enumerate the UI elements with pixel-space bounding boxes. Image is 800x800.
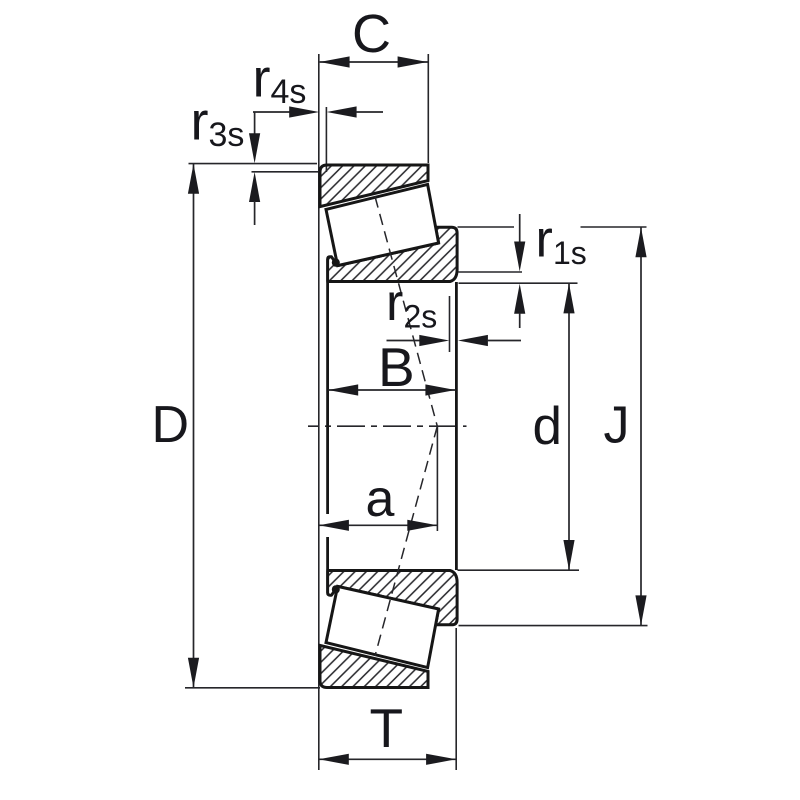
wire extension r4s chamfer [325,107,327,172]
node notch blob top [332,258,340,266]
dimension r2s [387,340,421,342]
dimension C [320,61,428,63]
svg-text:J: J [604,397,630,455]
dimension r4s [253,111,290,113]
svg-text:r: r [253,49,271,109]
wire extension T right [455,628,457,770]
svg-text:B: B [378,336,415,398]
svg-text:3s: 3s [209,116,245,154]
node roller axis top (dashed) [375,197,437,427]
wire extension r1s chamfer [459,271,523,273]
node roller axis bottom (dashed) [375,426,437,656]
node notch blob bottom [332,585,340,593]
dimension d [568,284,570,570]
roller bottom (white) [326,586,439,667]
wire extension D bottom [185,687,320,689]
wire extension d bottom [458,569,580,571]
wire bore silhouette right [455,282,458,570]
dimension a [319,524,437,526]
dimension T [319,758,456,760]
wire extension line C right [427,54,429,163]
svg-text:r: r [536,211,553,269]
wire extension r2s chamfer [449,296,451,352]
inner ring cone top section (hatched) [328,227,458,281]
dimension B [328,389,455,391]
node center axis (dash-dot) [308,425,467,427]
wire extension line left (C/r4s/a/T common, x=318.8) [318,54,320,770]
dimension J [640,227,642,625]
svg-text:1s: 1s [553,235,587,271]
svg-text:C: C [352,4,391,64]
outer ring cup bottom section (hatched) [320,645,428,687]
dimension r3s [254,112,256,135]
svg-text:T: T [370,697,404,759]
svg-text:D: D [152,396,190,454]
wire extension r3s top / D top [189,163,318,165]
inner ring cone bottom section (hatched) [328,571,458,625]
svg-text:r: r [191,92,209,152]
wire extension a right (apex drop) [436,426,438,531]
svg-text:4s: 4s [271,73,307,111]
svg-text:d: d [533,397,562,456]
wire extension J bottom [459,625,648,627]
svg-text:r: r [386,274,403,332]
roller top (white) [326,184,439,265]
wire extension r3s bottom [252,171,319,173]
dimension r1s [519,214,521,243]
dimension D [193,164,195,688]
wire bore silhouette left [326,282,329,514]
svg-text:2s: 2s [404,299,438,335]
svg-text:a: a [366,470,395,528]
wire extension d top / r1s lower [459,282,578,284]
outer ring cup top section (hatched) [320,165,428,207]
wire extension J top (two segments, gap for r1s label) [458,226,515,228]
